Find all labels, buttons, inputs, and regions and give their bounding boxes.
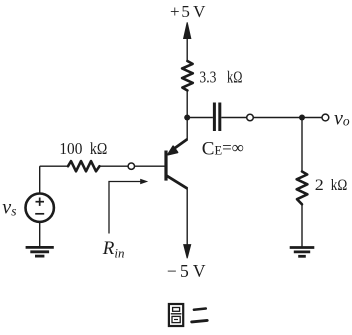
node junction dot at collector [184, 115, 190, 121]
svg-text:−5V: −5V [167, 261, 206, 281]
open terminal circle input [128, 163, 134, 169]
arrow to +5 V [184, 22, 191, 61]
svg-text:+5V: +5V [170, 2, 206, 21]
wire load resistor to ground [301, 204, 303, 246]
node junction dot at output [299, 115, 305, 121]
open terminal circle after capacitor [247, 114, 254, 121]
svg-text:kΩ: kΩ [90, 139, 107, 158]
wire input terminal to base [135, 165, 165, 167]
wire node to capacitor [187, 117, 213, 119]
caption character 二 [192, 309, 208, 322]
wire terminal to output node [253, 117, 322, 119]
transistor Q1 emitter lead with arrow [168, 139, 187, 154]
svg-text:CE=∞: CE=∞ [202, 138, 244, 159]
open terminal circle vo [322, 114, 329, 121]
ground left [26, 247, 54, 256]
Rin pointer arrow [109, 182, 143, 234]
wire source top riser [39, 166, 41, 193]
wire output node down to load resistor [301, 118, 303, 172]
wire capacitor to terminal circle [221, 117, 246, 119]
transistor Q1 collector lead [167, 176, 188, 189]
resistor 2 k load [297, 172, 308, 205]
capacitor CE plates [214, 103, 219, 132]
svg-text:kΩ: kΩ [331, 177, 348, 194]
wire resistor to input terminal [100, 165, 129, 167]
resistor 3.3 k [182, 61, 193, 91]
caption character 圖 [169, 304, 183, 326]
source minus sign [35, 213, 44, 215]
resistor 100 k [68, 161, 100, 171]
ground right [290, 248, 315, 257]
svg-text:100: 100 [59, 139, 82, 158]
source vs circle [26, 194, 54, 222]
svg-text:kΩ: kΩ [227, 67, 242, 86]
svg-text:3.3: 3.3 [199, 67, 216, 86]
source plus sign [36, 198, 45, 206]
svg-text:2: 2 [315, 177, 324, 194]
arrow to -5 V [184, 245, 191, 259]
wire emitter down [186, 188, 188, 247]
wire collector branch vertical [186, 91, 188, 141]
transistor Q1 base bar [164, 151, 167, 181]
wire source bottom to ground [39, 222, 41, 247]
wire source to base resistor [40, 165, 68, 167]
